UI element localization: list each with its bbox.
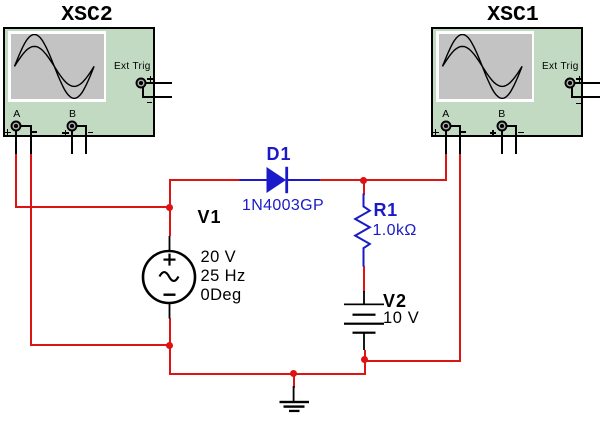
wire ground stub red [293, 374, 295, 388]
oscilloscope XSC1 label [483, 5, 543, 27]
wire XSC2 A- vertical [30, 154, 32, 346]
value 10 V [383, 310, 419, 327]
value 1N4003GP [242, 198, 324, 214]
wire left column top [169, 179, 171, 236]
label R1 [374, 201, 398, 219]
oscilloscope XSC2 label [57, 5, 117, 27]
value 25 Hz [201, 268, 246, 285]
value 0Deg [201, 287, 242, 304]
ground [277, 385, 313, 415]
wire XSC2 A+ horizontal to node [15, 206, 171, 208]
dc source V2 battery [340, 288, 390, 352]
node junction ground [290, 370, 297, 377]
wire V2 bottom to corner [364, 350, 366, 375]
diode D1 [238, 164, 322, 196]
wire R1 bottom red [363, 266, 365, 292]
ac source V1 [140, 233, 200, 323]
wire left column bottom [169, 344, 171, 375]
label V1 [198, 208, 222, 226]
oscilloscope XSC1 [431, 27, 583, 137]
wire right column [459, 154, 461, 362]
node junction V1 top [166, 204, 173, 211]
wire XSC2 A+ vertical [15, 154, 17, 209]
wire top row right segment [319, 179, 447, 181]
wire top row left segment [169, 179, 241, 181]
wire XSC1 A+ vertical [445, 154, 447, 182]
node junction V2 bottom [361, 356, 368, 363]
wire V1 bottom red [169, 318, 171, 347]
oscilloscope XSC2 [3, 27, 155, 137]
node junction diode/R1 [360, 177, 367, 184]
node junction V1 bottom [166, 342, 173, 349]
wire bottom row [169, 373, 366, 375]
wire row y360 [364, 360, 462, 362]
value 1.0k ohm [373, 223, 417, 239]
wire R1 top red [363, 179, 365, 195]
resistor R1 [350, 190, 378, 270]
label V2 [383, 292, 407, 310]
wire row y345 [30, 344, 171, 346]
value 20 V [201, 249, 237, 266]
label D1 [267, 145, 292, 163]
